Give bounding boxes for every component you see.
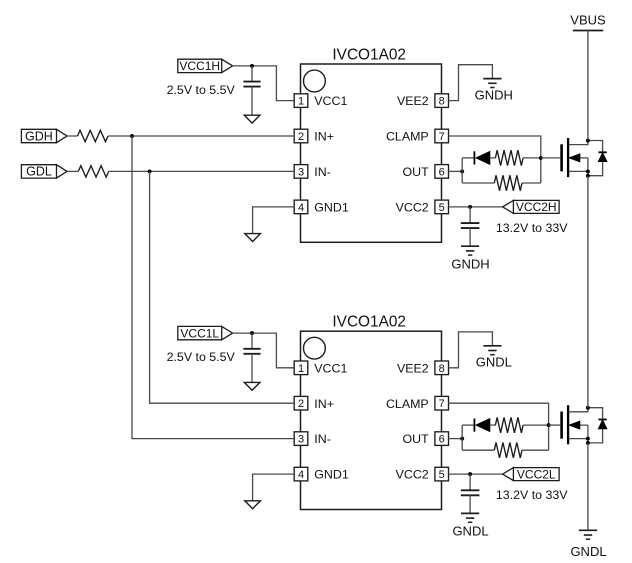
svg-text:13.2V to 33V: 13.2V to 33V — [496, 488, 568, 502]
ground (logic side, GND1) — [245, 234, 261, 242]
svg-text:VCC2L: VCC2L — [517, 467, 556, 481]
VBUS supply bar — [573, 30, 603, 32]
wire GDL flag to resistor — [67, 170, 78, 172]
svg-text:IN+: IN+ — [314, 130, 334, 144]
capacitor C1H (VCC1 decoupling) — [243, 81, 260, 83]
wire cap to ground — [469, 228, 471, 246]
svg-text:2: 2 — [298, 131, 304, 143]
svg-text:VBUS: VBUS — [570, 12, 606, 27]
svg-text:OUT: OUT — [403, 432, 430, 446]
wire switch node: high-side source to low-side drain — [587, 176, 589, 408]
wire VBUS to high-side drain — [587, 31, 589, 141]
wire bottom branch to right vertical — [522, 182, 541, 184]
wire GDL down to lower IN+ — [150, 171, 295, 403]
svg-text:IN-: IN- — [314, 165, 331, 179]
wire pin 7 CLAMP to gate node — [449, 136, 541, 183]
pin 3 box — [294, 165, 308, 179]
supply flag VCC2H — [513, 200, 559, 213]
resistor RH1 (gate on-resistance) — [495, 150, 523, 165]
svg-text:VCC2: VCC2 — [396, 468, 429, 482]
pin 4 box — [294, 467, 308, 481]
power MOSFET QL with body diode — [562, 405, 607, 445]
wire cap to ground — [251, 354, 253, 383]
input flag GDH — [21, 129, 56, 142]
pin 3 box — [294, 432, 308, 446]
input flag GDL — [21, 165, 56, 178]
svg-text:6: 6 — [439, 434, 445, 446]
wire cap lead — [251, 333, 253, 348]
diode DH (turn-off, anode right) — [473, 151, 475, 164]
svg-text:IN-: IN- — [314, 432, 331, 446]
svg-text:8: 8 — [439, 96, 445, 108]
wire cap lead — [469, 207, 471, 223]
wire pin 8 VEE2 to GNDH — [449, 65, 493, 101]
svg-text:OUT: OUT — [403, 165, 430, 179]
capacitor C2L (VCC2 decoupling) — [461, 489, 480, 491]
ground GNDL (bus return) — [579, 529, 597, 531]
wire bottom branch lead — [462, 449, 494, 451]
svg-text:1: 1 — [298, 363, 304, 375]
svg-text:VCC1: VCC1 — [314, 361, 347, 375]
supply flag VCC2L — [513, 468, 559, 481]
svg-text:GNDL: GNDL — [570, 544, 606, 559]
svg-text:4: 4 — [298, 202, 304, 214]
wire pin 8 VEE2 to GNDL — [449, 332, 493, 368]
node: gate drive junction — [547, 423, 551, 427]
svg-text:CLAMP: CLAMP — [386, 397, 429, 411]
supply flag VCC1H — [178, 59, 222, 72]
wire network left vertical — [461, 425, 463, 450]
pin 4 box — [294, 200, 308, 214]
node: GDH branch junction — [130, 134, 134, 138]
svg-text:5: 5 — [439, 202, 445, 214]
node: VCC2 / cap junction — [468, 472, 472, 476]
wire GDL to pin 3 IN- (upper) — [109, 170, 295, 172]
wire pin 4 GND1 to ground — [253, 474, 295, 501]
IC U2 pin-1 indicator circle — [304, 337, 326, 359]
wire resistor to gate node — [523, 424, 549, 426]
wire VCC1H flag to pin 1 — [233, 66, 294, 101]
pin 5 box — [435, 200, 449, 214]
svg-text:GNDL: GNDL — [452, 524, 488, 539]
resistor RH2 (gate off-resistance) — [494, 175, 522, 190]
wire pin 7 CLAMP to gate node — [449, 403, 549, 450]
resistor RL2 (gate off-resistance) — [494, 443, 522, 458]
wire low-side source to GNDL — [587, 443, 589, 530]
svg-text:CLAMP: CLAMP — [386, 130, 429, 144]
wire bottom branch lead — [462, 182, 494, 184]
wire cap lead — [469, 474, 471, 490]
IC U2 IVCO1A02 outline — [301, 331, 442, 509]
node: GDL branch junction — [148, 169, 152, 173]
node: OUT left junction — [460, 437, 464, 441]
ground GNDH (power side) — [483, 78, 501, 80]
wire VCC1L flag to pin 1 — [233, 333, 294, 368]
svg-text:GDL: GDL — [26, 165, 52, 179]
capacitor C2H (VCC2 decoupling) — [461, 222, 480, 224]
wire diode to resistor — [490, 157, 496, 159]
svg-text:VCC1H: VCC1H — [179, 59, 220, 73]
svg-text:VEE2: VEE2 — [397, 94, 429, 108]
diode DL (turn-off, anode right) — [473, 419, 475, 432]
wire gate node to MOSFET gate — [541, 157, 561, 159]
svg-text:GNDH: GNDH — [451, 257, 489, 272]
wire bottom branch to right vertical — [522, 449, 549, 451]
wire cap to ground — [469, 495, 471, 513]
svg-text:GNDL: GNDL — [476, 355, 512, 370]
svg-text:GNDH: GNDH — [475, 88, 513, 103]
pin 1 box — [294, 361, 308, 375]
pin 2 box — [294, 129, 308, 143]
wire diode to resistor — [490, 424, 496, 426]
node: VCC1L / decoupling cap junction — [250, 331, 254, 335]
svg-text:2.5V to 5.5V: 2.5V to 5.5V — [167, 350, 236, 364]
power MOSFET QH with body diode — [562, 138, 607, 178]
pin 8 box — [435, 94, 449, 108]
wire network left vertical — [461, 158, 463, 183]
wire resistor to gate node — [523, 157, 541, 159]
node: gate drive junction — [539, 156, 543, 160]
wire pin 5 VCC2 to supply flag — [449, 206, 503, 208]
wire cap lead — [251, 66, 253, 81]
wire top branch lead — [462, 424, 474, 426]
wire top branch lead — [462, 157, 474, 159]
ground GNDL (power side) — [483, 345, 501, 347]
svg-text:3: 3 — [298, 166, 304, 178]
wire pin 4 GND1 to ground — [253, 207, 295, 234]
resistor RL1 (gate on-resistance) — [495, 417, 523, 432]
pin 7 box — [435, 396, 449, 410]
node: VCC1H / decoupling cap junction — [250, 64, 254, 68]
svg-text:13.2V to 33V: 13.2V to 33V — [496, 221, 568, 235]
wire pin 6 OUT to network left node — [449, 438, 463, 440]
wire GDH to pin 2 IN+ (upper) — [108, 135, 294, 137]
svg-text:2.5V to 5.5V: 2.5V to 5.5V — [167, 83, 236, 97]
wire cap to ground — [251, 87, 253, 116]
svg-text:IVCO1A02: IVCO1A02 — [332, 46, 406, 63]
resistor RGDL (gate signal series) — [78, 166, 108, 177]
IC U1 pin-1 indicator circle — [304, 70, 326, 92]
node: OUT left junction — [460, 169, 464, 173]
svg-text:VCC1: VCC1 — [314, 94, 347, 108]
wire gate node to MOSFET gate — [549, 424, 561, 426]
capacitor C1L (VCC1 decoupling) — [243, 348, 260, 350]
svg-text:VCC1L: VCC1L — [180, 326, 219, 340]
wire GDH down to lower IN- — [132, 136, 294, 439]
pin 6 box — [435, 432, 449, 446]
wire pin 6 OUT to network left node — [449, 170, 463, 172]
pin 6 box — [435, 165, 449, 179]
svg-text:GND1: GND1 — [314, 201, 349, 215]
svg-text:1: 1 — [298, 96, 304, 108]
ground (logic side) — [244, 115, 260, 123]
svg-text:VCC2: VCC2 — [396, 201, 429, 215]
svg-text:2: 2 — [298, 398, 304, 410]
ground (logic side, GND1) — [245, 501, 261, 509]
svg-text:GDH: GDH — [25, 129, 53, 143]
svg-text:IN+: IN+ — [314, 397, 334, 411]
svg-text:7: 7 — [439, 398, 445, 410]
svg-text:8: 8 — [439, 363, 445, 375]
svg-text:5: 5 — [439, 469, 445, 481]
svg-text:3: 3 — [298, 434, 304, 446]
pin 5 box — [435, 467, 449, 481]
resistor RGDH (gate signal series) — [78, 130, 109, 141]
svg-text:GND1: GND1 — [314, 468, 349, 482]
wire GDH flag to resistor — [67, 135, 78, 137]
svg-text:VCC2H: VCC2H — [516, 200, 557, 214]
node: VCC2 / cap junction — [468, 205, 472, 209]
supply flag VCC1L — [178, 326, 222, 339]
svg-text:6: 6 — [439, 166, 445, 178]
ground GNDL (power side) — [461, 512, 479, 514]
svg-text:VEE2: VEE2 — [397, 361, 429, 375]
pin 2 box — [294, 396, 308, 410]
svg-text:4: 4 — [298, 469, 304, 481]
pin 8 box — [435, 361, 449, 375]
wire pin 5 VCC2 to supply flag — [449, 473, 503, 475]
svg-text:7: 7 — [439, 131, 445, 143]
ground (logic side) — [244, 382, 260, 390]
IC U1 IVCO1A02 outline — [301, 64, 442, 242]
pin 1 box — [294, 94, 308, 108]
pin 7 box — [435, 129, 449, 143]
svg-text:IVCO1A02: IVCO1A02 — [332, 314, 406, 331]
ground GNDH (power side) — [461, 245, 479, 247]
